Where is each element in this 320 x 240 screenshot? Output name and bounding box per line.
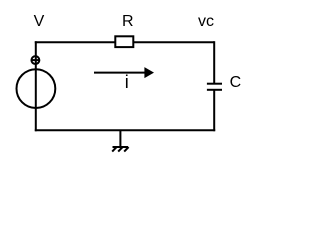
svg-text:vc: vc	[198, 13, 214, 30]
svg-text:R: R	[122, 13, 134, 30]
svg-text:V: V	[34, 13, 45, 30]
svg-text:C: C	[230, 74, 242, 91]
svg-text:i: i	[125, 72, 129, 92]
